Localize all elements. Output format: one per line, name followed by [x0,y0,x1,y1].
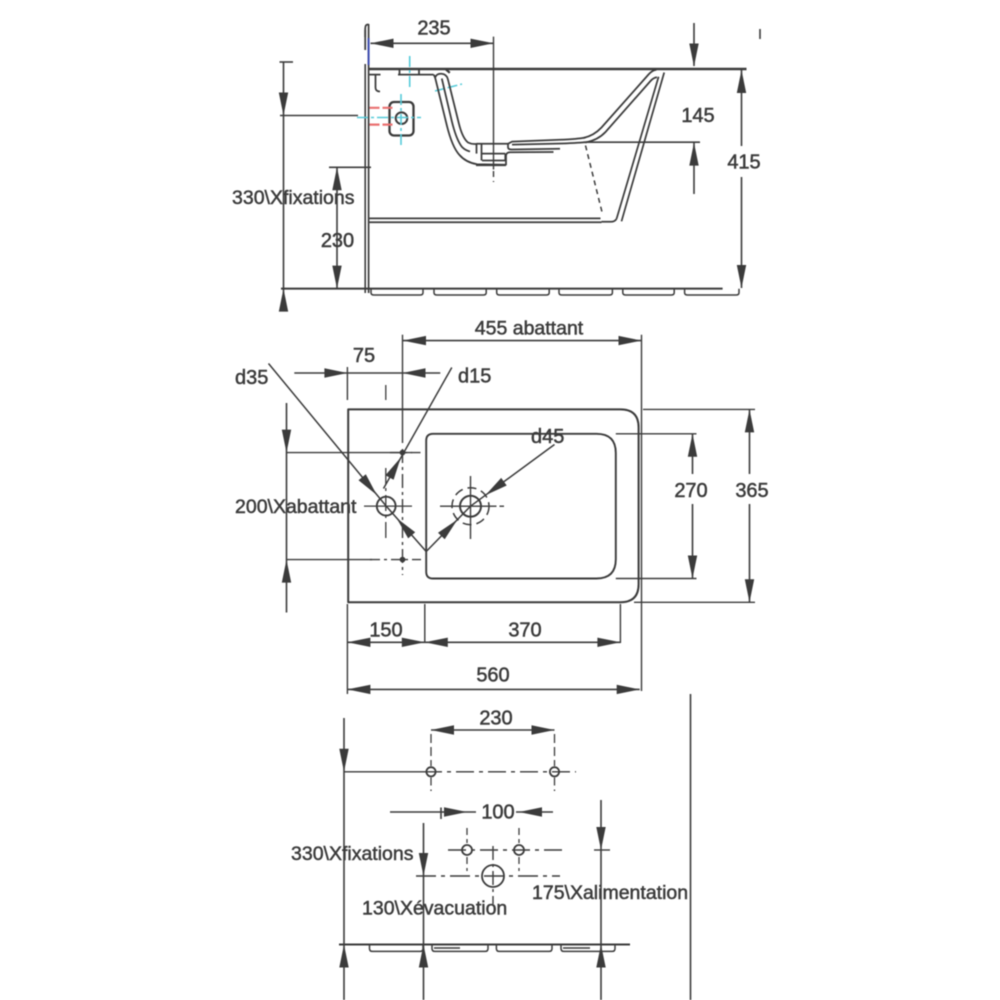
svg-text:560: 560 [476,665,509,687]
dim 145 line lower [693,143,695,194]
dim 455 text [475,318,584,340]
deck underside near wall [370,74,381,76]
hole d35 vertical centerline [385,385,387,541]
ext fixation hole left [430,734,432,766]
wall bracket J hook [376,75,381,92]
dim evacuation text [362,898,507,920]
bowl front middle stroke [442,79,470,152]
svg-text:d45: d45 [531,426,564,448]
dim fixations text side [232,187,355,209]
drain recess low row [482,160,505,162]
feet inner shading [434,947,590,949]
dim 150 arrow left [347,638,370,647]
drain recess top row [477,143,509,145]
leader d35 arrow inner [397,518,416,538]
svg-text:230: 230 [321,230,354,252]
dim 365 line [749,409,751,602]
svg-text:235: 235 [417,18,450,40]
supply hole right [514,845,524,855]
dim 145 arrow upper [689,44,698,67]
ext 365 top [643,408,755,410]
dim 235 arrow right [471,39,494,48]
cyan centerline bowl rim [435,84,462,91]
dim alimentation arrow top [596,827,605,850]
dim 415 arrow bottom [737,265,746,288]
dim 230bv text [479,708,512,730]
svg-text:415: 415 [727,152,760,174]
svg-text:270: 270 [674,480,707,502]
dim 270 arrow top [688,434,697,457]
deck underside line [398,74,434,76]
dim fixations column line [283,62,285,311]
svg-text:370: 370 [508,620,541,642]
evacuation axis [416,875,560,877]
svg-text:455 abattant: 455 abattant [475,318,584,340]
cyan centerline deck hole [409,56,411,90]
dim fixations top tick [280,61,294,63]
deck top surface line [369,68,747,71]
ext 270 bottom [616,578,697,580]
dim fixations bv arrow top [339,749,348,772]
dim 560 arrow right [617,685,640,694]
seat rise to backrest inner [586,77,658,142]
body base lower line [370,221,602,223]
ext 270 top [616,433,697,435]
cyan centerline faucet vertical [400,94,402,146]
seat lower parallel [512,142,588,145]
leader d35 arrow outer [359,474,377,495]
dim 455 arrow left [403,336,426,345]
svg-text:d35: d35 [235,367,268,389]
dim 455 arrow right [619,336,642,345]
abattant hole cross lower [370,559,421,561]
dim 370 arrow left [425,638,448,647]
fixation holes axis [344,771,576,773]
dim 150 arrow right [402,638,425,647]
dim 230bv line [431,729,555,731]
dim 150-370 line [347,641,620,643]
backrest fin inner edge [617,77,659,219]
blue reference segment on wall [368,38,370,65]
dim 100 arrow left [444,807,467,816]
bowl front outer stroke [434,75,506,165]
stray tick [759,29,761,39]
ext fixation hole right [554,734,556,766]
dim alimentation column [600,800,602,1000]
svg-text:230: 230 [479,708,512,730]
dim 270 arrow bottom [688,556,697,579]
leader d45 arrow inner [438,520,457,540]
svg-text:75: 75 [353,345,375,367]
drain recess left edge [477,144,482,161]
svg-text:330\Xfixations: 330\Xfixations [291,843,414,865]
hole d35 horizontal centerline [364,505,412,507]
dim 100 text [481,802,514,824]
fixation hole left [426,767,435,776]
dim 365 arrow top [745,409,754,432]
dim 75 arrow left [324,368,347,377]
dim 100 left tick [440,808,442,820]
drain vertical centerline [470,476,472,539]
svg-text:100: 100 [481,802,514,824]
dim 230 line [336,167,338,288]
fixations level line [329,166,371,168]
faucet hole edge tick right [418,70,420,75]
ext abattant lower [287,559,373,561]
fixation hole right [550,767,559,776]
dim fixations bv text [291,843,414,865]
dim 235 text [417,18,450,40]
plan inner rect [426,434,616,579]
abattant hole cross lower dot [400,557,404,561]
hole d35 [377,497,396,516]
svg-text:d15: d15 [458,366,491,388]
svg-text:175\Xalimentation: 175\Xalimentation [532,882,688,904]
abattant hole cross upper dot [400,450,404,454]
dim fixations arrow up [279,289,288,312]
dim 100 arrow right [519,807,542,816]
dim 560 arrow left [347,685,370,694]
abattant hinge axis line [402,335,404,575]
dim fixations arrow down [279,93,288,116]
dim evacuation arrow bottom [419,945,428,968]
wall top break hook [365,24,368,37]
faucet circle [396,112,408,124]
dim evacuation arrow top [419,853,428,876]
dim abattant text [235,496,357,518]
dim 560 line [347,688,639,690]
base feet segments [371,289,739,295]
dim 145 arrow lower [689,143,698,166]
leader d35 [269,364,427,552]
dim abattant column [286,403,288,613]
dim 370 text [508,620,541,642]
wire wall outer line [364,30,366,293]
svg-text:130\Xévacuation: 130\Xévacuation [362,898,507,920]
dim 150 text [369,620,402,642]
ext line right column [641,335,643,691]
dim 100 line [390,811,553,813]
wire wall main line [368,24,370,293]
dim 415 arrow top [737,70,746,93]
dim 230bv arrow right [532,725,555,734]
bowl shell bottom [476,164,506,166]
dim 365 arrow bottom [745,579,754,602]
supply holes axis [448,849,610,851]
dim 365 text [735,480,768,502]
fin foot bottom [602,219,617,222]
ext 370 right [619,604,621,643]
dim 270 text [674,480,707,502]
evacuation circle [482,865,504,887]
dim alimentation arrow bottom [596,945,605,968]
bowl front inner stroke [449,82,477,144]
seat interior line [508,138,586,144]
red hidden supply dash bottom [370,123,394,125]
drain circle dashed [452,488,489,525]
supply hole right cl [518,828,520,843]
abattant hole cross upper [390,452,421,454]
dim 560 text [476,665,509,687]
shell step inner [508,148,560,150]
dim fixations bv arrow bottom [339,945,348,968]
dim 145 text [681,105,714,127]
dim evacuation column [423,823,425,1000]
supply hole left cl [466,828,468,843]
svg-text:200\Xabattant: 200\Xabattant [235,496,357,518]
rim contact tick [446,70,450,73]
supply hole left [462,845,472,855]
label d35 [235,367,268,389]
dim 230 arrow up [332,167,341,190]
bowl rim channel U [435,74,448,82]
hidden bowl back dashed [586,146,603,215]
leader d45 [426,445,554,552]
cyan centerline faucet horizontal [357,117,421,119]
drain recess mid row [482,153,506,155]
ext 150 mid [424,604,426,643]
dim 235 line [371,42,494,44]
floor line side view [281,288,723,290]
body base upper line [370,217,601,219]
backrest fin outer edge [622,73,665,222]
right reference line [690,694,692,1000]
dim 415 line [741,70,743,288]
base feet segments bottom view [370,945,616,952]
dim alimentation text [532,882,688,904]
dim 270 line [692,434,694,579]
leader d45 arrow outer [485,478,506,495]
dim 75 arrow right [403,368,426,377]
faucet body rounded rect [390,102,414,136]
ext 365 bottom [634,601,755,603]
svg-text:365: 365 [735,480,768,502]
red hidden supply dash top [370,107,394,109]
dim 415 text [727,152,760,174]
dim fixations bv column [343,718,345,1000]
svg-text:145: 145 [681,105,714,127]
fixation hole left cl below [430,778,432,792]
supply hole right cl below [518,857,520,871]
drain horizontal centerline [440,505,504,507]
fixation hole right cl below [554,778,556,792]
faucet hole edge tick left [399,70,401,75]
label d15 [458,366,491,388]
dim 230bv arrow left [431,725,454,734]
dim 370 arrow right [597,638,620,647]
dim 230 text [321,230,354,252]
dim abattant arrow upper [282,430,291,453]
dim 75 line [294,372,440,374]
floor line bottom view [339,944,630,946]
ext 560 left [346,604,348,694]
evacuation cross vertical [492,846,494,904]
faucet level extension line [280,115,358,117]
ext abattant upper [287,452,413,454]
dim 230 arrow down [332,266,341,289]
drain centerline [493,37,495,182]
shell step outer [506,152,554,165]
seat rise to backrest outer [584,70,657,138]
drain circle solid [460,496,481,517]
leader d15 [384,368,452,489]
leader d15 arrow [385,458,400,480]
plan outer rect [348,409,638,602]
dim 455 line [403,340,642,342]
svg-text:150: 150 [369,620,402,642]
ext line 75 left [346,367,348,400]
supply hole left cl below [466,857,468,871]
label d45 [531,426,564,448]
drain recess right edge [505,144,508,161]
dim 235 arrow left [371,39,394,48]
dim abattant arrow lower [282,560,291,583]
seat level reference line [584,141,701,143]
dim 145 line upper [693,23,695,66]
dim 75 text [353,345,375,367]
